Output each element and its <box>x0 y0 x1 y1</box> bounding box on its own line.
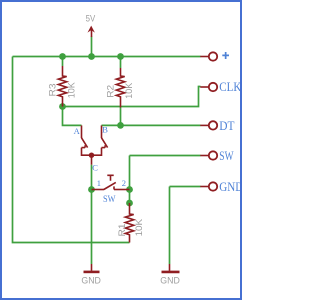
svg-text:1: 1 <box>97 178 101 188</box>
svg-text:A: A <box>74 126 81 136</box>
svg-text:GND: GND <box>160 276 180 287</box>
svg-text:SW: SW <box>219 148 234 163</box>
svg-text:R3: R3 <box>48 84 59 97</box>
svg-text:CLK: CLK <box>219 79 242 94</box>
svg-text:SW: SW <box>103 194 116 204</box>
svg-text:DT: DT <box>219 118 234 133</box>
svg-text:GND: GND <box>219 179 242 194</box>
svg-text:B: B <box>102 125 108 135</box>
svg-text:10K: 10K <box>66 82 77 99</box>
svg-text:R1: R1 <box>117 224 128 237</box>
svg-text:10K: 10K <box>134 218 145 236</box>
svg-text:5V: 5V <box>86 13 96 24</box>
svg-text:GND: GND <box>81 275 101 286</box>
svg-text:R2: R2 <box>105 85 116 98</box>
svg-text:10K: 10K <box>124 82 135 99</box>
svg-text:C: C <box>92 163 98 173</box>
svg-text:2: 2 <box>122 178 126 188</box>
